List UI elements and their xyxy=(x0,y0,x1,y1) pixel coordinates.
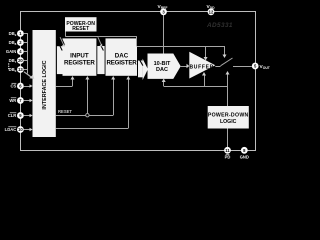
wire dac to buffer xyxy=(181,64,190,68)
ellipsis between DB7 and DB0 xyxy=(8,63,9,69)
svg-text:DAC: DAC xyxy=(115,52,129,59)
wire B: reset distribution xyxy=(56,76,116,116)
svg-text:GAIN: GAIN xyxy=(6,49,16,54)
svg-text:RESET: RESET xyxy=(72,26,90,32)
svg-text:12: 12 xyxy=(209,10,214,15)
svg-text:LDAC: LDAC xyxy=(5,127,17,132)
output switch xyxy=(215,58,252,67)
data bus gather line xyxy=(24,34,35,79)
pin DB7 xyxy=(9,57,24,64)
svg-text:BUFFER: BUFFER xyxy=(189,64,213,70)
pin CS with arrow into interface logic xyxy=(10,83,32,90)
reset branch arrow into buffer top xyxy=(204,46,208,61)
pin WR with arrow into interface logic xyxy=(9,97,32,104)
svg-text:INTERFACE LOGIC: INTERFACE LOGIC xyxy=(42,60,48,109)
svg-text:REGISTER: REGISTER xyxy=(64,60,95,67)
power-down arrow into buffer bottom xyxy=(202,72,206,86)
bus arrow dac register to dac xyxy=(138,59,148,80)
pin GAIN xyxy=(6,48,24,55)
interface logic block xyxy=(33,30,56,137)
10-bit dac block xyxy=(148,54,181,79)
svg-text:DB0: DB0 xyxy=(9,67,17,73)
pin VDD on top border xyxy=(207,4,216,15)
junction on reset wire xyxy=(86,114,89,117)
bus arrow interface logic to input register xyxy=(57,45,63,75)
svg-text:PD: PD xyxy=(225,154,231,159)
svg-text:DB7: DB7 xyxy=(9,58,17,64)
buffer op-amp xyxy=(189,52,215,79)
pin VREF on top border xyxy=(158,4,168,15)
svg-text:POWER-DOWN: POWER-DOWN xyxy=(208,112,249,118)
svg-text:20: 20 xyxy=(18,58,23,63)
svg-text:10: 10 xyxy=(18,127,23,132)
wire C: ldac to dac register bottom xyxy=(56,76,131,129)
vref wire down to dac xyxy=(163,15,165,54)
reset diagonal arrow into input register top xyxy=(60,37,65,47)
svg-text:LOGIC: LOGIC xyxy=(220,119,237,125)
power-down arrow into dac bottom xyxy=(162,79,166,87)
svg-text:GND: GND xyxy=(240,154,249,159)
pin DB8 xyxy=(9,39,24,46)
power-down net to switch xyxy=(226,71,230,106)
power-on reset block xyxy=(65,17,97,32)
svg-text:CS: CS xyxy=(10,84,16,89)
svg-text:RESET: RESET xyxy=(58,109,72,114)
part label AD5331 xyxy=(206,22,233,29)
bus arrow input register to dac register xyxy=(97,45,104,75)
chip boundary border xyxy=(21,12,256,151)
svg-text:DB8: DB8 xyxy=(9,40,17,46)
dac register block xyxy=(106,38,138,75)
pin DB9 xyxy=(9,30,24,37)
svg-text:10-BIT: 10-BIT xyxy=(154,61,171,67)
pin LDAC with arrow into interface logic xyxy=(5,126,33,133)
RESET net label xyxy=(58,109,72,114)
pin VOUT on right border xyxy=(252,63,271,70)
svg-text:INPUT: INPUT xyxy=(70,52,89,59)
svg-text:AD5331: AD5331 xyxy=(206,22,233,29)
pin PD on bottom border xyxy=(224,147,231,159)
pin DB0 xyxy=(9,66,24,73)
svg-text:WR: WR xyxy=(9,98,16,103)
svg-text:DB9: DB9 xyxy=(9,31,17,37)
wire A: interface logic to input register bottom load xyxy=(56,76,75,87)
power-down logic block xyxy=(208,106,249,129)
reset diagonal arrow into dac register top xyxy=(98,37,102,47)
svg-text:REGISTER: REGISTER xyxy=(106,60,137,67)
pin CLR with arrow into interface logic xyxy=(8,112,33,119)
svg-text:CLR: CLR xyxy=(8,113,17,118)
reset branch arrow down to output switch xyxy=(223,46,227,58)
svg-text:11: 11 xyxy=(225,148,230,153)
power-down net horizontal branch xyxy=(164,86,228,88)
svg-text:13: 13 xyxy=(18,67,23,72)
input register block xyxy=(63,38,97,75)
svg-text:DAC: DAC xyxy=(156,67,168,73)
power-down pin wire xyxy=(227,129,229,151)
power-on reset net: stub from POR box xyxy=(65,32,224,47)
pin GND on bottom border xyxy=(240,147,249,159)
